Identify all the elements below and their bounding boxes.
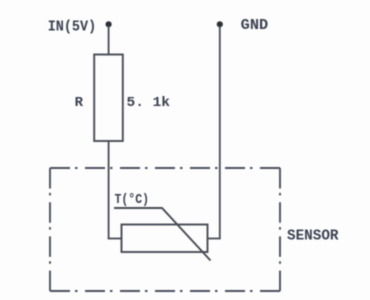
wire bbox=[108, 238, 122, 240]
svg-text:R: R bbox=[75, 95, 84, 111]
thermistor RT body bbox=[122, 225, 208, 253]
wire bbox=[108, 141, 110, 239]
svg-text:SENSOR: SENSOR bbox=[287, 227, 339, 244]
node GND bbox=[217, 21, 223, 27]
sensor box bottom edge bbox=[50, 290, 280, 292]
sensor box right edge bbox=[279, 168, 281, 291]
svg-text:IN(5V): IN(5V) bbox=[48, 19, 96, 36]
svg-text:T(°C): T(°C) bbox=[115, 192, 150, 208]
wire bbox=[219, 26, 221, 239]
wire bbox=[108, 26, 110, 55]
thermistor RT diagonal bbox=[114, 208, 211, 261]
svg-text:GND: GND bbox=[241, 17, 269, 34]
svg-text:5. 1k: 5. 1k bbox=[127, 95, 171, 111]
sensor box top edge bbox=[50, 167, 280, 169]
sensor box left edge bbox=[49, 168, 51, 291]
node IN bbox=[106, 21, 112, 27]
resistor R bbox=[94, 55, 123, 142]
wire bbox=[208, 238, 221, 240]
